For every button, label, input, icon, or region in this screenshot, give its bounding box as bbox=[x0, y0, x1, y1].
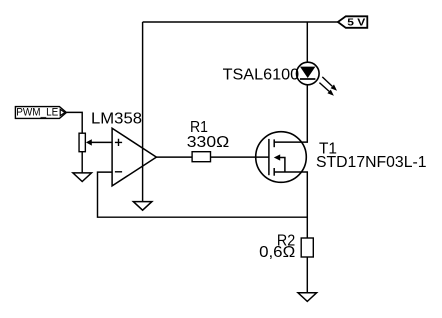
svg-text:TSAL6100: TSAL6100 bbox=[223, 66, 300, 83]
svg-text:0,6Ω: 0,6Ω bbox=[259, 244, 295, 261]
svg-text:5 V: 5 V bbox=[347, 16, 365, 28]
svg-text:STD17NF03L-1: STD17NF03L-1 bbox=[316, 154, 427, 171]
svg-text:330Ω: 330Ω bbox=[187, 134, 229, 151]
svg-text:PWM_LE: PWM_LE bbox=[16, 107, 58, 119]
svg-text:LM358: LM358 bbox=[91, 110, 142, 127]
